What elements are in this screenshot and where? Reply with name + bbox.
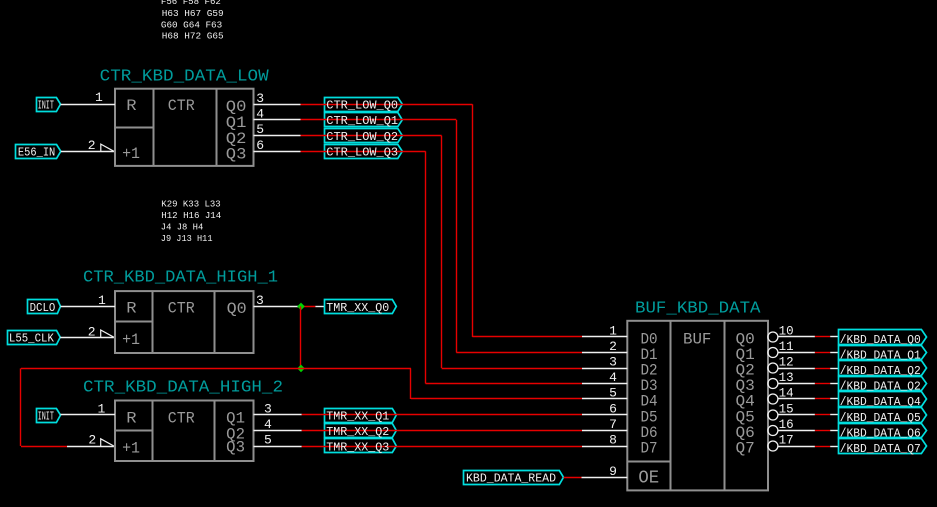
- svg-text:BUF: BUF: [683, 331, 711, 349]
- svg-text:3: 3: [256, 91, 264, 106]
- svg-text:Q3: Q3: [226, 439, 245, 457]
- svg-text:TMR_XX_Q1: TMR_XX_Q1: [326, 410, 389, 423]
- wire Q0 output stub: [254, 104, 301, 106]
- wire net CTR_LOW_Q2 (red) to BUF_KBD_DATA D2: [301, 136, 583, 369]
- svg-text:J9 J13 H11: J9 J13 H11: [161, 233, 213, 244]
- svg-text:8: 8: [609, 433, 617, 448]
- flag KBD_DATA_READ (output enable): [464, 471, 564, 486]
- pin 15 (BUF Q5) wire: [778, 402, 815, 416]
- flag /KBD_DATA_Q4: [839, 392, 927, 409]
- svg-text:KBD_DATA_READ: KBD_DATA_READ: [466, 473, 556, 486]
- pin 4 (BUF D3) wire: [582, 370, 627, 385]
- flag TMR_XX_Q3: [325, 439, 397, 453]
- pin 9 (BUF OE) wire: [582, 464, 628, 479]
- flag /KBD_DATA_Q6: [839, 424, 927, 441]
- svg-text:TMR_XX_Q2: TMR_XX_Q2: [326, 426, 389, 439]
- wire net TMR_XX_Q3 (red) to BUF_KBD_DATA D7: [302, 446, 582, 448]
- pin 17 (BUF Q7) wire: [778, 433, 815, 447]
- svg-text:OE: OE: [638, 469, 659, 489]
- wire Q1 output stub: [254, 119, 301, 121]
- flag E56_IN (clock input): [16, 145, 61, 160]
- wire net CTR_LOW_Q3 (red) to BUF_KBD_DATA D3: [301, 151, 583, 383]
- svg-text:+1: +1: [122, 331, 140, 349]
- svg-text:Q0: Q0: [227, 300, 247, 318]
- svg-text:CTR: CTR: [168, 299, 195, 317]
- pin 11 (BUF Q1) wire: [778, 340, 815, 354]
- svg-text:Q3: Q3: [226, 146, 247, 164]
- flag /KBD_DATA_Q0: [839, 330, 927, 347]
- clock wedge at pin 2: [101, 330, 114, 337]
- svg-text:1: 1: [98, 293, 106, 308]
- flag INIT (input to CTR_KBD_DATA_LOW): [37, 98, 61, 113]
- wire net TMR_XX_Q0 (red) left run to HIGH_2 clock: [21, 368, 302, 446]
- svg-text:D7: D7: [641, 440, 658, 458]
- svg-text:CTR_LOW_Q2: CTR_LOW_Q2: [326, 131, 398, 144]
- wire net /KBD_DATA_Q2 (red stub): [815, 368, 838, 370]
- wire Q2 output stub: [254, 430, 302, 432]
- flag /KBD_DATA_Q7: [839, 439, 927, 456]
- pin 14 (BUF Q4) wire: [778, 386, 815, 400]
- pin 1 (BUF D0) wire: [582, 324, 627, 339]
- wire net /KBD_DATA_Q4 (red stub): [815, 398, 838, 400]
- svg-text:BUF_KBD_DATA: BUF_KBD_DATA: [635, 300, 761, 319]
- flag /KBD_DATA_Q1: [839, 346, 927, 363]
- inversion bubble pin 10 (BUF Q0): [768, 332, 778, 342]
- wire Q3 output stub: [254, 446, 302, 448]
- svg-text:DCLO: DCLO: [30, 302, 56, 315]
- junction node at Q0 / vertical drop: [297, 303, 305, 311]
- svg-text:H68 H72 G65: H68 H72 G65: [162, 31, 224, 42]
- wire Q3 output stub: [254, 151, 301, 153]
- clock wedge at pin 2: [101, 144, 114, 151]
- reference text block top (chip locations F56... ): [161, 0, 224, 42]
- counter CTR_KBD_DATA_HIGH_2 body: [115, 401, 254, 462]
- svg-text:TMR_XX_Q3: TMR_XX_Q3: [326, 441, 389, 454]
- pin 8 (BUF D7) wire: [582, 433, 627, 448]
- counter CTR_KBD_DATA_HIGH_1 body: [115, 291, 254, 353]
- svg-text:F56 F58 F62: F56 F58 F62: [161, 0, 221, 7]
- svg-text:R: R: [126, 97, 136, 115]
- flag CTR_LOW_Q1: [325, 113, 403, 127]
- wire net /KBD_DATA_Q7 (red stub): [815, 446, 838, 448]
- reference text block middle (chip locations K29...): [161, 199, 222, 245]
- wire net TMR_XX_Q2 (red) to BUF_KBD_DATA D6: [302, 430, 582, 432]
- svg-text:CTR_KBD_DATA_LOW: CTR_KBD_DATA_LOW: [100, 68, 270, 87]
- svg-text:/KBD_DATA_Q7: /KBD_DATA_Q7: [840, 443, 921, 456]
- wire DCLO to pin 1: [61, 306, 116, 308]
- inversion bubble pin 17 (BUF Q7): [768, 441, 778, 451]
- svg-text:CTR: CTR: [168, 409, 195, 427]
- counter CTR_KBD_DATA_LOW body: [115, 89, 254, 166]
- svg-text:9: 9: [609, 464, 617, 479]
- pin 3 (BUF D2) wire: [582, 355, 627, 370]
- svg-text:TMR_XX_Q0: TMR_XX_Q0: [326, 302, 389, 315]
- pin 5 (BUF D4) wire: [582, 386, 627, 401]
- wire net /KBD_DATA_Q0 (red stub): [815, 336, 838, 338]
- inversion bubble pin 14 (BUF Q4): [768, 394, 778, 404]
- svg-text:17: 17: [779, 433, 794, 447]
- wire INIT to pin 1: [61, 104, 116, 106]
- pin 10 (BUF Q0) wire: [778, 324, 815, 338]
- flag /KBD_DATA_Q2: [839, 361, 927, 378]
- flag /KBD_DATA_Q5: [839, 408, 927, 425]
- buffer BUF_KBD_DATA body: [627, 321, 768, 491]
- wire INIT to pin 1: [61, 414, 116, 416]
- wire white stub into TMR_XX_Q0 flag: [315, 306, 324, 308]
- inversion bubble pin 13 (BUF Q3): [768, 379, 778, 389]
- svg-text:2: 2: [88, 432, 96, 447]
- pin 6 (BUF D5) wire: [582, 402, 627, 417]
- clock wedge at pin 2: [101, 439, 114, 446]
- svg-text:+1: +1: [122, 439, 140, 457]
- pin 7 (BUF D6) wire: [582, 417, 627, 432]
- svg-text:3: 3: [256, 293, 264, 308]
- flag CTR_LOW_Q3: [325, 145, 403, 159]
- svg-text:2: 2: [88, 138, 96, 153]
- inversion bubble pin 11 (BUF Q1): [768, 348, 778, 358]
- wire net TMR_XX_Q1 (red) to BUF_KBD_DATA D5: [302, 414, 582, 416]
- flag L55_CLK (clock input): [8, 331, 61, 346]
- svg-text:INIT: INIT: [38, 410, 54, 423]
- flag CTR_LOW_Q2: [325, 129, 403, 143]
- flag INIT (input to CTR_KBD_DATA_HIGH_2): [37, 409, 61, 424]
- pin 2 (BUF D1) wire: [582, 339, 627, 354]
- svg-text:12: 12: [779, 355, 794, 369]
- svg-text:CTR_KBD_DATA_HIGH_2: CTR_KBD_DATA_HIGH_2: [83, 378, 283, 397]
- svg-text:Q7: Q7: [736, 440, 755, 458]
- svg-text:1: 1: [95, 90, 103, 105]
- svg-text:CTR_LOW_Q0: CTR_LOW_Q0: [326, 100, 398, 113]
- junction node at clock distribution: [297, 365, 305, 373]
- inversion bubble pin 12 (BUF Q2): [768, 363, 778, 373]
- svg-text:R: R: [126, 299, 136, 317]
- flag TMR_XX_Q2: [325, 424, 397, 438]
- wire E56_IN to pin 2: [61, 151, 114, 153]
- flag TMR_XX_Q0: [325, 300, 397, 315]
- svg-text:K29 K33 L33: K29 K33 L33: [161, 199, 221, 210]
- inversion bubble pin 15 (BUF Q5): [768, 410, 778, 420]
- svg-text:5: 5: [264, 433, 272, 448]
- wire net /KBD_DATA_Q5 (red stub): [815, 414, 838, 416]
- wire net /KBD_DATA_Q2 (red stub): [815, 383, 838, 385]
- wire net /KBD_DATA_Q1 (red stub): [815, 352, 838, 354]
- wire net CTR_LOW_Q1 (red) to BUF_KBD_DATA D1: [301, 120, 583, 353]
- svg-text:6: 6: [256, 138, 264, 153]
- svg-text:3: 3: [609, 355, 617, 370]
- svg-text:G60 G64 F63: G60 G64 F63: [161, 19, 223, 30]
- wire Q0 output stub (white): [254, 306, 299, 308]
- inversion bubble pin 16 (BUF Q6): [768, 426, 778, 436]
- svg-text:L55_CLK: L55_CLK: [9, 333, 54, 346]
- svg-text:E56_IN: E56_IN: [18, 147, 55, 160]
- wire net KBD_DATA_READ (red stub): [564, 477, 582, 479]
- wire white stub to pin 2: [67, 446, 114, 448]
- flag /KBD_DATA_Q2: [839, 377, 927, 394]
- svg-text:H12 H16 J14: H12 H16 J14: [161, 210, 221, 221]
- svg-text:CTR: CTR: [168, 97, 195, 115]
- wire net /KBD_DATA_Q6 (red stub): [815, 430, 838, 432]
- wire net TMR_XX_Q0 (red) stub into flag: [299, 306, 316, 308]
- wire net TMR_XX_Q0 vertical drop (red): [300, 306, 302, 368]
- svg-text:H63 H67 G59: H63 H67 G59: [162, 8, 224, 19]
- wire L55_CLK to pin 2: [60, 337, 114, 339]
- pin 12 (BUF Q2) wire: [778, 355, 815, 369]
- pin 13 (BUF Q3) wire: [778, 371, 815, 385]
- wire net CTR_LOW_Q0 (red) to BUF_KBD_DATA D0: [301, 104, 583, 337]
- flag DCLO (reset input): [28, 300, 61, 315]
- wire Q1 output stub: [254, 414, 302, 416]
- svg-text:INIT: INIT: [38, 100, 54, 113]
- flag TMR_XX_Q1: [325, 409, 397, 423]
- svg-text:R: R: [126, 409, 136, 427]
- svg-text:CTR_LOW_Q3: CTR_LOW_Q3: [326, 147, 398, 160]
- svg-text:CTR_LOW_Q1: CTR_LOW_Q1: [326, 115, 398, 128]
- pin 16 (BUF Q6) wire: [778, 418, 815, 432]
- svg-text:CTR_KBD_DATA_HIGH_1: CTR_KBD_DATA_HIGH_1: [83, 269, 278, 288]
- wire Q2 output stub: [254, 135, 301, 137]
- svg-text:+1: +1: [122, 145, 140, 163]
- flag CTR_LOW_Q0: [325, 98, 403, 112]
- wire net TMR_XX_Q0 (red) right run to BUF_KBD_DATA D4: [301, 368, 582, 399]
- svg-text:J4 J8 H4: J4 J8 H4: [161, 222, 204, 233]
